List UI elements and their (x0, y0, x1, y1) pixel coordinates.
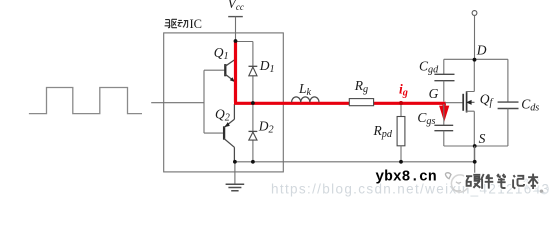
svg-text:D: D (476, 42, 487, 57)
svg-text:ybx8.cn: ybx8.cn (375, 169, 436, 185)
label 驱动IC (165, 19, 189, 28)
red current arrow (442, 104, 445, 107)
wire input to driver (151, 102, 204, 104)
inductor Lk (292, 97, 319, 102)
capacitor Cgd (443, 59, 445, 74)
svg-text:S: S (479, 131, 486, 146)
node driver output / D1 anode (251, 101, 255, 105)
node S / ground rail (473, 160, 477, 164)
logo sketch (445, 173, 468, 192)
node Q2 collector / ground (233, 160, 237, 164)
resistor Rpd (400, 104, 402, 117)
label 硬件笔记本 (hand-drawn CJK with white halo) (466, 174, 538, 189)
diode D1 (249, 67, 257, 76)
diode D2 (252, 103, 254, 162)
wire drain node horizontal (444, 58, 508, 60)
transistor Q1 (224, 64, 226, 76)
node S junction (473, 144, 477, 148)
driver IC box (164, 33, 284, 172)
resistor Rg (349, 99, 373, 106)
svg-text:Vcc: Vcc (228, 0, 244, 12)
MOSFET Qf (462, 94, 464, 111)
Vcc supply (228, 16, 243, 18)
node Vcc junction (234, 39, 238, 43)
input square wave (29, 88, 142, 114)
svg-text:IC: IC (190, 17, 203, 31)
ground symbol (234, 162, 236, 184)
wire base bus (204, 70, 225, 133)
wire gate (445, 102, 463, 104)
wire Vcc node to D1 top (236, 42, 253, 104)
node D junction (473, 58, 477, 62)
ground rail wire (235, 161, 475, 163)
svg-text:G: G (429, 86, 439, 101)
wire source stub below rail (474, 146, 476, 174)
node Rpd / ground rail (399, 160, 403, 164)
node Rpd / gate line (399, 101, 403, 105)
capacitor Cgs (443, 104, 445, 125)
capacitor Cds (507, 59, 509, 102)
wire source row (444, 145, 508, 147)
transistor Q2 (223, 126, 225, 139)
drain terminal (472, 11, 477, 16)
red gate current path (234, 41, 446, 103)
node D2 anode / ground rail (251, 160, 255, 164)
